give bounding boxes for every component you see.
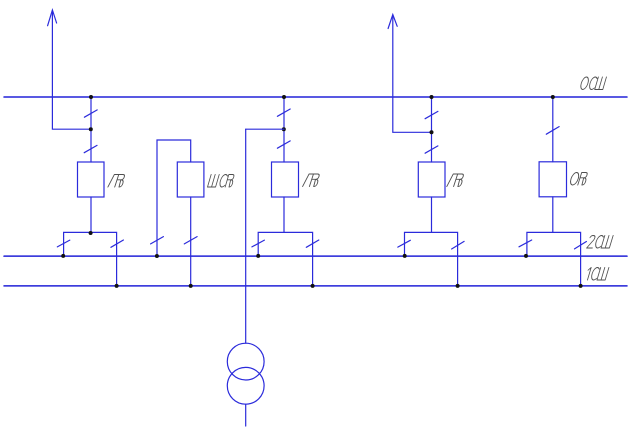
wire feeder2 breaker to bar <box>431 197 433 232</box>
disconnector feeder1 to 1СШ <box>111 240 124 247</box>
node transformer feeder on 1СШ <box>311 284 315 288</box>
busbar 1СШ <box>4 285 627 287</box>
node ШСВ on 1СШ <box>189 284 193 288</box>
label ЛВ feeder1 <box>108 175 126 188</box>
wire ОВ breaker to bar <box>552 197 554 233</box>
wire feeder1 bus drop <box>90 97 92 162</box>
wire feeder2 bus drop <box>431 97 433 162</box>
label ОСШ <box>579 77 606 90</box>
wire feeder1 line tap to arrow <box>52 11 91 129</box>
wire feeder2 line tap to arrow <box>393 16 432 132</box>
node transformer feeder on ОСШ <box>282 95 286 99</box>
wire ОВ bus drop <box>552 97 554 162</box>
label 1СШ <box>585 268 609 281</box>
disconnector transformer feeder bus side <box>277 109 290 116</box>
label 2СШ <box>587 236 614 249</box>
wire transformer tap <box>246 128 284 130</box>
node feeder1 on ОСШ <box>89 95 93 99</box>
disconnector feeder1 line side <box>84 145 97 152</box>
breaker ЛВ transformer feeder <box>272 162 299 197</box>
wire transformer bottom stub <box>245 404 247 426</box>
label ОВ <box>569 173 588 186</box>
disconnector feeder1 bus side <box>84 110 97 117</box>
node feeder2 on 2СШ <box>403 254 407 258</box>
disconnector feeder2 to 1СШ <box>452 241 465 249</box>
node feeder1 on 2СШ <box>61 254 65 258</box>
disconnector ШСВ 2СШ side <box>151 237 164 244</box>
node feeder1 on 1СШ <box>115 284 119 288</box>
disconnector transformer feeder line side <box>277 141 290 148</box>
breaker ЛВ feeder1 <box>78 162 105 197</box>
node transformer feeder on 2СШ <box>256 254 260 258</box>
label ЛВ transformer feeder <box>303 174 321 187</box>
transformer winding 2 <box>227 367 264 404</box>
node ОВ on ОСШ <box>551 95 555 99</box>
node feeder1 bar center <box>89 231 93 235</box>
breaker ОВ <box>539 162 566 197</box>
label ЛВ feeder2 <box>447 174 465 187</box>
label ШСВ <box>208 175 236 188</box>
disconnector feeder2 to 2СШ <box>398 240 411 247</box>
disconnector feeder1 to 2СШ <box>57 240 70 247</box>
disconnector ОВ to 2СШ <box>519 240 532 247</box>
disconnector ОВ to 1СШ <box>575 242 587 249</box>
breaker ШСВ <box>177 162 204 197</box>
disconnector transformer feeder to 2СШ <box>252 240 265 247</box>
breaker ЛВ feeder2 <box>418 162 445 197</box>
node ШСВ on 2СШ <box>155 254 159 258</box>
wire transformer feeder bus drop <box>283 97 285 162</box>
disconnector feeder2 line side <box>425 146 438 153</box>
disconnector ОВ <box>546 127 559 135</box>
disconnector feeder2 bus side <box>425 111 438 118</box>
disconnector transformer feeder to 1СШ <box>306 240 319 247</box>
node feeder2 on ОСШ <box>430 95 434 99</box>
transformer winding 1 <box>227 343 264 380</box>
node ОВ on 1СШ <box>579 284 583 288</box>
wire feeder1 breaker to selector bar <box>90 197 92 232</box>
node feeder2 tap junction <box>430 130 434 134</box>
bus selector transformer feeder <box>258 232 312 286</box>
wire ШСВ breaker to 1СШ <box>190 197 192 286</box>
node feeder2 on 1СШ <box>456 284 460 288</box>
arrowhead feeder1 <box>48 10 57 26</box>
arrowhead feeder2 <box>388 15 397 29</box>
wire ШСВ loop 2СШ riser <box>157 140 191 256</box>
wire transformer feeder breaker to bar <box>283 197 285 232</box>
bus selector feeder1 (bar with legs) <box>64 232 117 286</box>
busbar 2СШ <box>4 255 627 257</box>
bus selector ОВ <box>527 232 581 286</box>
bus selector feeder2 <box>405 232 458 286</box>
node feeder1 tap junction <box>89 127 93 131</box>
busbar ОСШ <box>4 96 627 98</box>
wire transformer riser <box>245 129 247 343</box>
node ОВ on 2СШ <box>524 254 528 258</box>
disconnector ШСВ 1СШ side <box>184 237 197 244</box>
node transformer feeder tap junction <box>282 127 286 131</box>
